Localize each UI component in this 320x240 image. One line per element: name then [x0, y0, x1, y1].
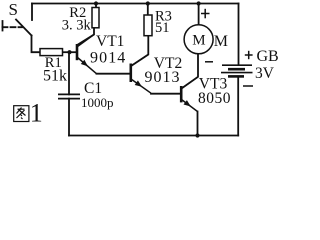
wire R2 top lead [95, 4, 97, 8]
battery polarity plus [245, 51, 253, 59]
wire left branch lower (C1 to bottom) [68, 99, 70, 136]
wire R3 top lead [147, 4, 149, 16]
svg-text:51k: 51k [43, 67, 67, 84]
svg-text:8050: 8050 [198, 90, 231, 107]
svg-text:S: S [9, 0, 18, 19]
wire VT1 emitter corner to VT2 base [97, 73, 131, 75]
battery GB [221, 65, 253, 76]
wire left branch upper (node to C1) [68, 52, 70, 94]
wire right side lower [237, 76, 239, 135]
transistor VT1 [77, 35, 97, 74]
wire bottom bus [69, 135, 238, 137]
node motor top [197, 1, 201, 5]
svg-text:VT1: VT1 [96, 33, 124, 50]
switch S upper lead [31, 4, 33, 21]
wire VT3 emitter down to bottom bus [197, 112, 199, 136]
figure label: hand-drawn CJK glyph tu (picture) [14, 106, 29, 122]
wire R2 bottom lead to VT1 collector [78, 28, 95, 45]
capacitor C1 [58, 94, 80, 98]
wire VT2 emitter corner to VT3 base [151, 93, 180, 95]
resistor R3 [144, 15, 152, 36]
wire R3 bottom to VT2 collector [131, 36, 148, 66]
resistor R1 [40, 49, 63, 56]
svg-text:1000p: 1000p [81, 95, 114, 110]
motor polarity plus [201, 9, 210, 18]
svg-text:9013: 9013 [145, 69, 181, 86]
switch S blade [16, 20, 32, 36]
switch S actuator dashed line [3, 26, 23, 28]
svg-text:GB: GB [257, 48, 279, 65]
switch S actuator tick [2, 21, 4, 31]
svg-text:M: M [192, 32, 205, 48]
node A (R1/C1/VT1 base) [67, 50, 71, 54]
svg-text:9014: 9014 [90, 49, 126, 66]
transistor VT2 [131, 55, 151, 94]
svg-text:M: M [214, 33, 228, 50]
svg-text:51: 51 [155, 20, 170, 36]
resistor R2 [92, 8, 99, 28]
wire motor bottom to VT3 collector [182, 54, 199, 89]
wire top bus [32, 3, 239, 5]
motor M circle [184, 25, 213, 54]
svg-text:1: 1 [30, 99, 43, 128]
wire R1 right to node A [63, 51, 76, 53]
svg-text:3V: 3V [255, 65, 275, 82]
motor polarity minus [205, 61, 213, 63]
node R3 top [146, 1, 150, 5]
node R2 top [94, 1, 98, 5]
svg-text:3. 3k: 3. 3k [62, 18, 92, 34]
wire motor top lead [198, 4, 200, 25]
battery polarity minus [243, 85, 253, 87]
switch S lower lead [32, 36, 41, 53]
node VT3 emitter on bottom bus [195, 133, 199, 137]
wire right side upper [238, 4, 240, 66]
transistor VT3 [181, 77, 198, 112]
